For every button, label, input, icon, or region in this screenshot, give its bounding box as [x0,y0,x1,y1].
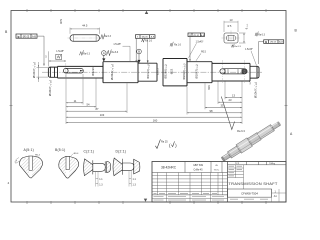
detail C shape [84,159,111,187]
svg-text:1.5x45°: 1.5x45° [196,41,204,43]
GDT frame 4 leader [259,42,264,64]
shaft section S1 left stub [48,66,57,78]
svg-text:Ø0.05: Ø0.05 [23,35,30,38]
GDT frame 4 top right [264,40,284,44]
svg-text:Ø20k6(₊₀‵₁₅): Ø20k6(₊₀‵₁₅) [182,63,186,79]
keyway right slot [223,69,245,74]
svg-text:R 5: R 5 [228,25,232,28]
border frame [11,11,286,203]
revision table text smudges [154,193,225,200]
detail B shape [59,156,79,178]
keyway plan left dimension [70,28,100,34]
dimension 87 left [66,110,127,112]
svg-text:Ø0.05: Ø0.05 [270,42,277,44]
svg-text:Ø12k6: Ø12k6 [91,67,95,76]
shaft section S6 collar [163,59,187,86]
dimension 103 full [66,116,242,118]
shaft section S2 keyway seat [58,66,104,78]
svg-text:C(2:1): C(2:1) [84,149,95,153]
dimension 13 right [225,97,242,99]
shaft section S3 bearing seat [103,62,138,83]
svg-text:Ra 1.6: Ra 1.6 [145,40,153,43]
drawing number box [228,189,272,197]
svg-text:1.5x45°: 1.5x45° [113,44,121,46]
svg-text:R0.4: R0.4 [35,154,40,156]
svg-text:Ra 6.3: Ra 6.3 [234,46,241,48]
GDT frame 3 [188,33,204,37]
GDT frame 1 top left [16,34,37,38]
title block right top row [228,162,287,165]
svg-text:◎: ◎ [189,34,191,37]
dimension 160 full [66,122,242,124]
dimension 54 left [66,106,96,108]
border zone tick marks [10,9,288,204]
surface finish Ra6.3 right stub small [232,44,235,48]
svg-text:Ra 6.3: Ra 6.3 [104,36,111,38]
bottom row smudges [230,198,268,201]
general roughness note Ra25 [155,139,160,148]
keyway plan right centerlines [222,37,241,39]
svg-text:1:1: 1:1 [235,162,239,165]
svg-text:A: A [103,51,105,55]
detail D shape [113,158,140,187]
surface finish Ra1.6 above collar [170,42,173,47]
svg-text:Ø0.05: Ø0.05 [193,35,200,37]
title block outer [152,162,286,203]
svg-text:D(2:1): D(2:1) [116,149,127,153]
svg-text:B: B [138,50,140,54]
surface finish Ra6.3 above S2 [80,50,84,55]
keyway left slot arrow [80,70,84,72]
svg-text:1.5x45°: 1.5x45° [56,51,64,53]
GDT frame 2 leader [135,38,137,61]
detail B hatching [59,157,66,176]
shoulder at x103 [102,62,104,83]
svg-text:A-B: A-B [151,36,155,39]
svg-text:B(5:1): B(5:1) [55,148,65,152]
big surface finish leader to isometric [221,97,234,130]
sheet cells right [228,189,287,202]
svg-text:Ø10h7(₋₀‵₁₅): Ø10h7(₋₀‵₁₅) [32,62,36,78]
title block left header row [152,162,228,173]
keyway right circle right [242,69,247,74]
svg-text:2x0.5: 2x0.5 [156,68,160,75]
svg-text:⇆: ⇆ [265,40,267,44]
svg-text:38-42HRC: 38-42HRC [161,165,177,169]
svg-text:Ø0.05: Ø0.05 [142,37,149,39]
shoulder at x187 [186,59,188,86]
svg-text:Ra 1.6: Ra 1.6 [174,45,181,47]
svg-text:160: 160 [153,119,158,123]
svg-text:GB/T 699: GB/T 699 [193,165,204,167]
svg-text:CrMn-45: CrMn-45 [194,168,204,171]
svg-text:13: 13 [232,94,235,98]
GDT frame 3 leader [189,37,191,61]
GDT frame 2 mid [136,35,156,39]
detail B small dims [71,154,74,156]
svg-text:1.5x45°: 1.5x45° [245,49,253,51]
surface finish Ra1.6 below GDT2 [142,38,145,42]
svg-text:R0.4: R0.4 [74,153,79,155]
keyway plan left centerline [68,37,103,39]
GDT frame 1 leader [37,36,44,64]
svg-text:A(5:1): A(5:1) [24,148,34,152]
svg-text:Ø20k6(₊₀‵₁₅): Ø20k6(₊₀‵₁₅) [110,64,114,80]
keyway plan view left [70,35,100,42]
svg-text:A-B: A-B [279,41,283,44]
svg-text:A-B: A-B [201,34,205,37]
surface finish Ra6.3 at shoulder 103 [107,50,112,56]
detail A hatching [21,157,30,176]
dimension 23 right [218,101,242,103]
svg-text:6h9: 6h9 [207,85,211,90]
left stub diameter dim [37,62,49,82]
surface finish Ra6.3 above slot left [101,34,105,40]
svg-text:103: 103 [100,113,105,117]
detail A shape [20,156,43,178]
shaft outline [48,59,259,86]
keyway circle centerline left [65,63,67,79]
approval rows left column [228,165,244,189]
svg-text:TRANSMISSION SHAFT: TRANSMISSION SHAFT [228,181,277,186]
shaft section S7 [187,62,212,83]
svg-text:4P9: 4P9 [59,19,63,25]
svg-text:11: 11 [74,99,77,103]
svg-text:CFW08-T504: CFW08-T504 [241,192,258,196]
detail A small dims [16,158,21,164]
svg-text:Ø16k6(₊₀₁): Ø16k6(₊₀₁) [146,64,150,78]
svg-text:Ø10h7(₋₀‵₁₅): Ø10h7(₋₀‵₁₅) [254,82,258,98]
dimension 35 right [205,107,242,109]
dimension 54 right [187,112,242,114]
keyway left slot [66,68,84,73]
revision table grid [152,173,228,203]
svg-text:Ø10h7(₋₀‵₁₅): Ø10h7(₋₀‵₁₅) [48,80,52,96]
keyway right inner lines [225,69,242,74]
svg-text:A-B: A-B [32,35,36,38]
extension lines below shaft [66,74,242,124]
svg-text:Ra 6.3: Ra 6.3 [111,52,118,54]
GDT2 second leader [147,38,148,63]
datum flag B [137,49,142,54]
keyway left circle [64,68,69,73]
svg-text:Ø22: Ø22 [170,68,174,74]
svg-text:700kg: 700kg [269,163,276,165]
svg-text:44.5: 44.5 [82,23,88,27]
shoulder at x250 [249,63,251,81]
dimension 11 left [66,102,83,104]
svg-text:54: 54 [87,103,90,107]
svg-text:Ra 6.3: Ra 6.3 [237,129,245,133]
svg-text:23: 23 [229,98,232,102]
svg-text:Ra 25: Ra 25 [161,141,168,144]
svg-text:13: 13 [230,18,233,22]
svg-text:6₋₀.₁: 6₋₀.₁ [245,24,249,30]
svg-text:R0.5: R0.5 [201,52,207,54]
svg-text:Ra 6.3: Ra 6.3 [258,34,265,36]
svg-text:Ø22h6(₊₀₁): Ø22h6(₊₀₁) [164,64,168,78]
centerline shaft axis [42,71,262,73]
shaft section S9 right stub [250,66,259,78]
svg-text:Ø18h7(₊₀₁): Ø18h7(₊₀₁) [195,64,199,78]
keyway plan view right [224,33,238,43]
centering arrow top border [145,11,148,14]
keyway plan right dims [224,21,246,43]
surface finish Ra6.3 right slot [255,32,258,37]
groove at x157-163 [157,59,163,86]
svg-text:98: 98 [210,109,213,113]
centering arrow bottom border [144,199,147,202]
shoulder at x212 [211,62,213,83]
keyway right circle left [220,69,225,74]
shoulder at x138 [137,62,139,83]
datum flag A [102,51,107,56]
keyway circle centerlines right [222,60,224,83]
svg-text:87: 87 [96,107,99,111]
isometric shaft 3D view [220,119,283,164]
shaft section S8 keyway seat right [212,63,250,81]
svg-text:T5×C: T5×C [214,168,220,171]
shaft section S4 [138,63,157,81]
svg-text:Ra 6.3: Ra 6.3 [83,53,90,55]
